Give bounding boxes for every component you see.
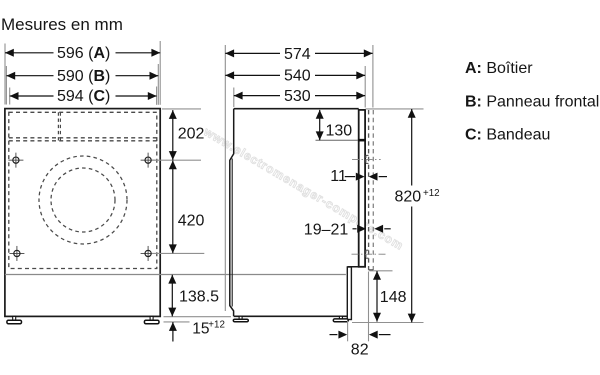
bandeau divider dashed line 1 (57, 112, 59, 141)
dimension line 420 (172, 160, 174, 253)
arrow 82 left (338, 331, 347, 339)
tail line 11 right (379, 176, 387, 178)
arrow 130 bottom (316, 131, 324, 140)
dimension line 202 (172, 110, 174, 160)
dimension line 594 C right segment (116, 95, 157, 97)
svg-text:540: 540 (284, 68, 311, 85)
dimension line 574 left segment (225, 52, 280, 54)
arrow 574 right (364, 49, 373, 57)
front view cabinet outline (5, 109, 160, 317)
extension line A right (159, 41, 161, 105)
svg-text:C: Bandeau: C: Bandeau (465, 127, 550, 144)
arrow 138.5 bottom (168, 308, 176, 317)
dimension line 15 (172, 322, 174, 341)
mounting hole top-left (8, 153, 23, 168)
front view left foot (7, 316, 22, 323)
arrow 594 C left (10, 92, 19, 100)
extension line 82 right (368, 272, 370, 342)
drum outer dashed circle (39, 156, 127, 244)
side view top edge (234, 108, 359, 110)
extension line 540 right (364, 66, 366, 108)
side view back edge outline (230, 109, 234, 317)
dimension line 530 right segment (315, 95, 365, 97)
leader line 19-21 (353, 228, 357, 230)
arrow 590 B left (6, 72, 15, 80)
arrow 530 right (356, 92, 365, 100)
dimension line 820 upper segment (411, 109, 413, 186)
extension line foot bottom (164, 321, 190, 323)
arrow 148 top (373, 271, 381, 280)
svg-text:574: 574 (284, 46, 311, 63)
dimension line 130 (319, 110, 321, 140)
drum inner dashed circle (51, 168, 115, 232)
dimension line 820 lower segment (411, 207, 413, 323)
front panel 130 tick bar (358, 139, 366, 142)
arrow 15 up (169, 322, 177, 331)
niche wall reference line (224, 45, 226, 311)
tail line 82 left (330, 334, 338, 336)
dimension line 596 A right segment (116, 52, 161, 54)
svg-text:19–21: 19–21 (304, 221, 349, 238)
bandeau divider dashed line 2 (59, 112, 61, 141)
dimension line 594 C left segment (10, 95, 54, 97)
leader line 11 (345, 176, 355, 178)
dimension line 574 right segment (315, 52, 373, 54)
mounting hole bottom-left (9, 246, 24, 261)
arrow 596 A right (151, 49, 160, 57)
bandeau bottom dashed line 2 (9, 140, 157, 142)
dimension line 540 left segment (225, 74, 280, 76)
svg-text:+12: +12 (423, 188, 440, 199)
bandeau bottom dashed line 1 (9, 137, 157, 139)
extension line machine bottom (164, 316, 232, 318)
furniture door dashed inner line (368, 110, 370, 270)
mounting hole bottom-right (141, 246, 156, 261)
front view inner dashed panel outline (9, 112, 157, 268)
leader line lower holes (152, 252, 205, 254)
side view front panel strip (359, 110, 365, 267)
dimension line 530 left segment (234, 95, 280, 97)
arrow 594 C right (148, 92, 157, 100)
tail line 82 right (379, 334, 391, 336)
arrow 420 bottom (169, 244, 177, 253)
extension line B left (5, 66, 7, 105)
svg-text:820: 820 (395, 189, 422, 206)
plinth step line (347, 266, 365, 268)
extension line 130 bottom (316, 139, 358, 141)
dimension line 590 B right segment (116, 75, 159, 77)
svg-text:148: 148 (380, 289, 407, 306)
arrow 596 A left (5, 49, 14, 57)
arrow 11 left (356, 173, 365, 181)
arrow 138.5 top (168, 275, 176, 284)
svg-text:530: 530 (284, 88, 311, 105)
arrow 11 right (369, 173, 378, 181)
side view back foot (233, 316, 248, 322)
svg-text:594 (C): 594 (C) (57, 88, 110, 105)
dimension line 148 (376, 271, 378, 322)
arrow 820 top (408, 109, 416, 118)
svg-text:15: 15 (192, 321, 209, 338)
arrow 540 right (356, 71, 365, 79)
dimension line 590 B left segment (6, 75, 53, 77)
arrow 82 right (369, 331, 378, 339)
arrow 820 bottom (408, 314, 416, 323)
svg-text:Mesures en mm: Mesures en mm (1, 15, 123, 34)
front view right foot (144, 316, 159, 323)
extension line B right (157, 64, 159, 105)
door hinge bump upper (366, 155, 369, 163)
extension line C right (156, 87, 158, 105)
svg-text:B: Panneau frontal: B: Panneau frontal (465, 93, 599, 110)
extension line 82 left (347, 321, 349, 341)
extension line top for 820 (366, 108, 424, 110)
arrow 590 B right (150, 72, 159, 80)
arrow 530 left (234, 92, 243, 100)
svg-text:202: 202 (178, 126, 205, 143)
furniture door dashed bottom cap (369, 269, 374, 271)
extension line 574 right (372, 45, 374, 108)
arrow 540 left (225, 71, 234, 79)
svg-text:596 (A): 596 (A) (57, 45, 110, 62)
extension line top for 202 (162, 108, 201, 110)
door hinge bump lower (366, 250, 369, 258)
dimension line 138.5 (171, 275, 173, 317)
extension line A left (4, 44, 6, 105)
svg-text:590 (B): 590 (B) (57, 68, 110, 85)
tail line 19-21 right (384, 228, 390, 230)
svg-text:A: Boîtier: A: Boîtier (465, 60, 533, 77)
lower hinge centerline (352, 253, 386, 255)
dimension line 596 A left segment (5, 52, 54, 54)
extension line 530 left (233, 88, 235, 108)
leader line upper holes (152, 159, 201, 161)
furniture door dashed outer line (372, 110, 374, 270)
plinth front panel (347, 267, 351, 320)
mounting hole top-right (141, 153, 156, 168)
svg-text:420: 420 (178, 213, 205, 230)
svg-text:130: 130 (326, 122, 353, 139)
arrow 574 left (225, 49, 234, 57)
arrow 202 top (169, 110, 177, 119)
floor line side view (352, 322, 424, 324)
svg-text:82: 82 (351, 341, 369, 358)
svg-text:11: 11 (330, 168, 347, 185)
extension line 148 top (370, 270, 393, 272)
arrow 19-21 left (357, 225, 366, 233)
svg-text:138.5: 138.5 (179, 289, 219, 306)
extension line C left (9, 88, 11, 105)
upper hinge centerline (352, 158, 381, 160)
plinth line extending to side view (5, 274, 346, 276)
side view back panel inner line (231, 159, 233, 307)
arrow 202 bottom (169, 151, 177, 160)
arrow 148 bottom (373, 313, 381, 322)
side view bottom edge (234, 315, 348, 317)
svg-text:+12: +12 (208, 319, 225, 330)
arrow 130 top (316, 110, 324, 119)
dimension line 540 right segment (315, 74, 365, 76)
side view front foot (333, 316, 348, 322)
arrow 420 top (169, 160, 177, 169)
arrow 19-21 right (374, 225, 383, 233)
